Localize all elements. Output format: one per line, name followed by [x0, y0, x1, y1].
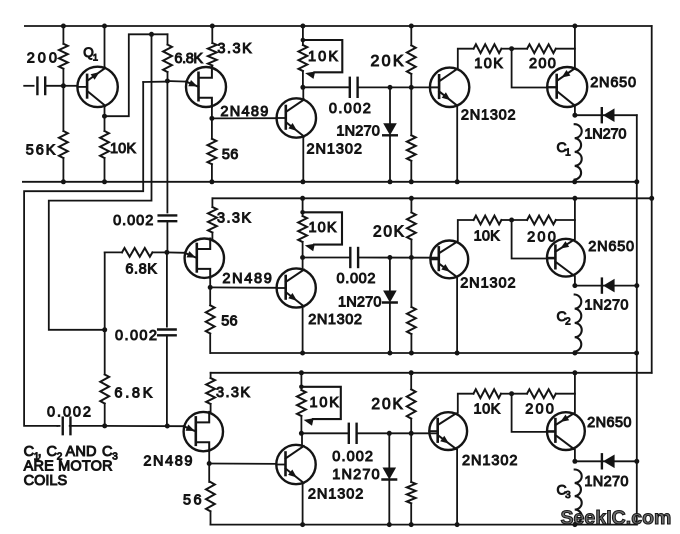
label Q1 [83, 45, 98, 63]
label 200 row3 right [525, 402, 554, 418]
wire right bus (diode/rail bus) [636, 115, 638, 524]
svg-text:2N489: 2N489 [222, 271, 271, 287]
svg-text:2N1302: 2N1302 [460, 276, 515, 292]
svg-text:0.002: 0.002 [115, 328, 157, 344]
node pot top rail1 [300, 24, 305, 29]
wire emitter down row1 first [300, 138, 305, 185]
transistor 2N650 row3 [547, 412, 585, 450]
note motor coils line1 [24, 444, 119, 463]
svg-text:2N1302: 2N1302 [462, 453, 518, 469]
svg-text:20K: 20K [371, 53, 404, 70]
label 10K box row2 [309, 220, 337, 236]
label 6.8K row3 [114, 385, 152, 401]
label 6.8K row2 [125, 261, 157, 277]
resistor 3.3K row1 [208, 26, 217, 67]
transistor Q1 [77, 67, 117, 107]
wire diode row3 right [575, 460, 637, 462]
wire ujt3 b1 down [208, 451, 210, 464]
wire A emitter feed up [105, 34, 168, 116]
svg-text:10K: 10K [474, 56, 503, 72]
resistor 3.3K row2 [208, 198, 217, 238]
svg-text:C: C [24, 444, 34, 460]
node 6.8K row3 bottom [102, 423, 107, 428]
label 10K box row3 [310, 395, 340, 411]
wire emitter down row3 second [456, 450, 458, 525]
wire diode row2 right [575, 285, 637, 287]
wire diode row1 right [575, 114, 637, 116]
svg-text:2N1302: 2N1302 [307, 141, 362, 157]
node C1 bottom rail1 [572, 179, 577, 184]
wire 2N650 emitter down row2 [574, 276, 576, 285]
wire 2N650 emitter down row1 [574, 105, 576, 115]
svg-text:56: 56 [221, 313, 237, 329]
note motor coils line3 [24, 473, 68, 489]
svg-text:1: 1 [565, 148, 571, 159]
wire ujt3 b1 to 2N1302 base [209, 463, 276, 465]
label 56 row3 [183, 493, 202, 509]
label 10K box row1 [308, 49, 338, 65]
svg-text:2N650: 2N650 [588, 239, 634, 255]
node 2N650 emitter row3 [572, 459, 577, 464]
svg-text:2N1302: 2N1302 [461, 107, 516, 123]
node emitter rail3 second [455, 522, 460, 527]
transistor 2N1302 row2 first [277, 268, 316, 307]
wire mid row2 left [303, 257, 350, 259]
resistor 200 row1 right [512, 44, 575, 53]
label 200 row2 right [527, 230, 556, 246]
label 20K row3 [371, 396, 403, 413]
node 2N650 emitter row2 [572, 283, 577, 288]
resistor 56 row3 [206, 464, 215, 525]
label 0.002 row2-b [115, 328, 157, 344]
label C3 [557, 482, 572, 502]
svg-text:SeekIC.com: SeekIC.com [561, 507, 672, 529]
transistor 2N489 row3 (UJT) [184, 412, 223, 451]
capacitor 0.002 row2 mid [350, 248, 358, 267]
svg-text:6.8K: 6.8K [174, 51, 203, 67]
label 56 row2 [221, 313, 237, 329]
diode 1N270 row2 mid [383, 258, 397, 354]
node Q1 emitter [102, 114, 107, 119]
transistor 2N489 row1 (UJT) [186, 67, 226, 107]
label 10K row3 right [474, 402, 501, 418]
svg-text:20K: 20K [371, 396, 403, 413]
wire row2 bottom rail [211, 352, 637, 354]
svg-text:0.002: 0.002 [113, 213, 153, 229]
node diode bottom rail3 [387, 522, 392, 527]
svg-text:C: C [102, 444, 112, 460]
node 2N650 emitter row1 [572, 113, 577, 118]
svg-text:6.8K: 6.8K [114, 385, 152, 401]
node ujt2 emitter [164, 250, 169, 255]
label 2N650 row1 [590, 75, 636, 91]
svg-text:6.8K: 6.8K [125, 261, 157, 277]
label 2N489 row2 [222, 271, 271, 287]
node 56 bottom rail1 [209, 179, 214, 184]
node 20K bottom row1 [409, 85, 414, 90]
svg-text:1N270: 1N270 [338, 295, 382, 311]
svg-text:0.002: 0.002 [47, 404, 91, 420]
label 1N270 row2 right [584, 297, 628, 313]
node 10K-200 junction row1 [509, 46, 514, 51]
node ujt2 b1 [208, 285, 213, 290]
node 3.3K top rail [210, 24, 215, 29]
node 20K top rail3 [409, 370, 414, 375]
node 56K bottom rail1 [61, 179, 66, 184]
label 2N650 row2 [588, 239, 634, 255]
svg-text:200: 200 [529, 56, 556, 72]
node 200 top rail [61, 24, 66, 29]
svg-text:3: 3 [112, 452, 118, 463]
svg-text:10K: 10K [474, 229, 501, 245]
node pot bottom row3 [299, 431, 304, 436]
label 1N270 row3 right [584, 474, 628, 490]
node lower res bottom rail1 [409, 179, 414, 184]
wire Q1 base [63, 85, 77, 87]
label 2N1302 row3 first [308, 486, 363, 502]
node C3 bottom rail3 [572, 522, 577, 527]
capacitor 0.002 row2 coupling-a [159, 81, 177, 252]
node ujt3 b1 [207, 461, 212, 466]
resistor 20K row2 [407, 198, 416, 257]
node lower res bottom rail2 [409, 351, 414, 356]
wire mid row2 right [358, 257, 438, 259]
resistor lower row1 [407, 87, 416, 181]
transistor 2N1302 row3 second [429, 412, 467, 450]
node emitter rail1 second [455, 179, 460, 184]
wire 2N650 collector riser row3 [574, 373, 576, 413]
inductor C2 motor coil [575, 295, 582, 352]
node ujt1 b1 [209, 116, 214, 121]
resistor pot 10K row1 [299, 45, 308, 87]
node lower res bottom rail3 [409, 522, 414, 527]
resistor 10K row3 right [474, 389, 512, 398]
svg-text:0.002: 0.002 [329, 101, 371, 117]
transistor 2N1302 row1 first [277, 98, 316, 137]
label 56 row1 [222, 147, 238, 163]
label 20K row1 [371, 53, 404, 70]
resistor 6.8K row1 [163, 34, 172, 81]
svg-text:0.002: 0.002 [337, 271, 376, 287]
wire 2N650 collector riser row1 [574, 26, 576, 68]
transistor 2N1302 row2 second [430, 241, 468, 279]
label 200 [27, 50, 57, 66]
wire row3 top rail [211, 372, 652, 374]
wire D ujt1 emitter to row3 cap [24, 82, 143, 426]
label 200 row1 right [529, 56, 556, 72]
node 20K top rail1 [409, 24, 414, 29]
label 2N1302 row1 first [307, 141, 362, 157]
capacitor 0.002 row1 [350, 78, 358, 97]
label 20K row2 [373, 224, 405, 241]
potentiometer box 10K row1 [301, 38, 343, 79]
svg-text:,: , [38, 444, 42, 460]
wire ujt2 b1 down [209, 278, 211, 288]
note motor coils line2 [24, 459, 113, 475]
svg-text:1N270: 1N270 [584, 127, 626, 143]
node Q1 base [61, 83, 66, 88]
svg-text:2: 2 [565, 317, 571, 328]
svg-text:AND: AND [66, 444, 97, 460]
node diode row3 bus [634, 459, 639, 464]
node 10K-200 junction row2 [509, 218, 514, 223]
wire collector riser row1 second [458, 49, 474, 69]
svg-text:20K: 20K [373, 224, 405, 241]
label 0.002 row3 left [47, 404, 91, 420]
svg-text:3: 3 [565, 490, 571, 501]
resistor 56 row1 [208, 118, 217, 181]
transistor 2N1302 row1 second [430, 68, 469, 107]
watermark SeekIC.com [561, 507, 672, 529]
svg-text:2N650: 2N650 [590, 75, 636, 91]
wire collector riser row2 second [458, 220, 474, 241]
node 2N650 rail2 [572, 196, 577, 201]
resistor 20K row1 [407, 26, 416, 87]
transistor 2N650 row2 [547, 239, 585, 277]
label 2N1302 row2 second [460, 276, 515, 292]
svg-text:C: C [47, 444, 57, 460]
wire 2N650 collector riser row2 [574, 198, 576, 239]
wire mid row3 left [301, 432, 347, 434]
label 0.002 row1 [329, 101, 371, 117]
node C2 bottom rail2 [572, 351, 577, 356]
wire B feed to rows 2-3 [49, 34, 152, 330]
svg-text:10K: 10K [474, 402, 501, 418]
wire row3 bottom rail [211, 524, 637, 526]
wire mid row3 right [357, 432, 438, 434]
wire ujt1 b1 down [211, 107, 213, 118]
label 0.002 row2 mid [337, 271, 376, 287]
inductor C1 motor coil [575, 124, 582, 179]
svg-text:1N270: 1N270 [584, 474, 628, 490]
label 3.3K row1 [217, 41, 252, 57]
wire emitter down row2 second [456, 278, 458, 353]
inductor C3 motor coil [575, 470, 582, 524]
svg-text:1N270: 1N270 [336, 124, 379, 140]
node 2N650 rail3 [572, 370, 577, 375]
wire ujt3 emitter [105, 425, 184, 427]
label C1 [557, 139, 572, 159]
label 2N1302 row2 first [308, 312, 362, 328]
node rail2 right end [634, 351, 639, 356]
wire ujt2 emitter [167, 251, 184, 253]
label 10K row2 right [474, 229, 501, 245]
node diode bottom rail2 [387, 351, 392, 356]
svg-text:2N1302: 2N1302 [308, 486, 363, 502]
resistor pot 10K row3 [297, 390, 306, 433]
resistor lower row2 [407, 258, 416, 354]
label 0.002 row3 mid [332, 449, 373, 465]
wire mid row1 left [303, 86, 349, 88]
resistor pot 10K row2 [298, 216, 307, 258]
wire emitter down row2 first [300, 307, 305, 355]
svg-text:200: 200 [27, 50, 57, 66]
resistor 200 (input) [59, 26, 68, 86]
capacitor 0.002 row3 mid [349, 424, 357, 443]
wire ujt1 b1 to 2N1302 base [212, 117, 277, 119]
wire row1 bottom rail [23, 181, 637, 183]
resistor 10K row1 right [474, 44, 512, 53]
node pot bottom row2 [300, 255, 305, 260]
wire collector riser row3 [301, 433, 303, 445]
label 2N489 row3 [143, 453, 192, 469]
capacitor input coupling [24, 78, 63, 95]
wire collector riser row2 [302, 258, 304, 269]
wire pot line row3 [300, 373, 302, 390]
svg-text:2N1302: 2N1302 [308, 312, 362, 328]
wire C feed row2 6.8K [104, 252, 106, 329]
wire row2 top rail [212, 197, 651, 199]
wire Q1 collector to rail [104, 26, 106, 68]
svg-text:COILS: COILS [24, 473, 68, 489]
svg-text:2N489: 2N489 [143, 453, 192, 469]
node pot bottom row1 [300, 85, 305, 90]
label 56K [26, 143, 56, 159]
potentiometer box 10K row2 [300, 210, 342, 251]
node 20K bottom row3 [409, 431, 414, 436]
label 1N270 row3 mid [332, 467, 379, 483]
label C2 [557, 308, 572, 328]
resistor 6.8K row3 [100, 330, 109, 426]
resistor 200 row3 right [512, 389, 575, 398]
node diode bottom rail1 [388, 179, 393, 184]
node diode top row1 [388, 85, 393, 90]
diode 1N270 row3 mid [383, 433, 397, 524]
label 2N1302 row3 second [462, 453, 518, 469]
svg-text:3.3K: 3.3K [217, 41, 252, 57]
node pot top rail3 [299, 370, 304, 375]
label 1N270 row2 mid [338, 295, 382, 311]
label 10K row1 right [474, 56, 503, 72]
resistor 6.8K row2 [105, 248, 167, 257]
svg-text:10K: 10K [308, 49, 338, 65]
wire emitter down row1 second [456, 107, 458, 182]
resistor 10K row2 right [474, 216, 512, 225]
svg-text:0.002: 0.002 [332, 449, 373, 465]
svg-text:1N270: 1N270 [584, 297, 628, 313]
svg-text:56: 56 [222, 147, 238, 163]
label 2N1302 row1 second [461, 107, 516, 123]
node 10K-200 junction row3 [509, 391, 514, 396]
node 10K bottom rail1 [102, 179, 107, 184]
wire pot line row2 [302, 198, 304, 216]
node diode top row3 [387, 431, 392, 436]
label 10K Q1 [110, 141, 136, 157]
resistor 10K (Q1 emitter) [100, 116, 109, 182]
svg-text:3.3K: 3.3K [217, 210, 251, 226]
label 1N270 row1 mid [336, 124, 379, 140]
svg-text:56K: 56K [26, 143, 56, 159]
svg-text:10K: 10K [309, 220, 337, 236]
wire collector riser row1 [302, 87, 304, 98]
label 2N489 row1 [220, 104, 268, 120]
node rail1 right end [634, 179, 639, 184]
svg-text:10K: 10K [310, 395, 340, 411]
node 20K top rail2 [409, 196, 414, 201]
svg-text:10K: 10K [110, 141, 136, 157]
wire collector riser row3 second [458, 394, 474, 413]
transistor 2N489 row2 (UJT) [185, 239, 224, 278]
node ujt3 emitter cap junction [165, 424, 170, 429]
node 20K bottom row2 [409, 255, 414, 260]
svg-text:200: 200 [525, 402, 554, 418]
label 0.002 row2-a [113, 213, 153, 229]
resistor lower row3 [407, 433, 416, 524]
svg-text:2N650: 2N650 [587, 415, 631, 431]
svg-text:3.3K: 3.3K [216, 385, 250, 401]
resistor 3.3K row3 [206, 373, 215, 412]
wire Q1 emitter down [104, 106, 106, 116]
wire pot line row1 [302, 26, 304, 45]
diode 1N270 row1 mid [383, 87, 397, 181]
svg-text:1N270: 1N270 [332, 467, 379, 483]
node 6.8K row1 bottom [165, 79, 170, 84]
wire ujt1 emitter [143, 81, 186, 82]
wire ujt2 b1 to 2N1302 base [210, 286, 276, 288]
resistor 56K [59, 86, 68, 182]
transistor 2N1302 row3 first [276, 445, 315, 484]
label 3.3K row2 [217, 210, 251, 226]
node rail2 top right [649, 196, 654, 201]
resistor 56 row2 [206, 287, 215, 353]
wire 2N650 base drop row1 [512, 49, 557, 88]
label 3.3K row3 [216, 385, 250, 401]
wire emitter down row3 first [300, 484, 305, 527]
node diode row2 bus [634, 283, 639, 288]
label 2N650 row3 [587, 415, 631, 431]
svg-text:1: 1 [93, 52, 98, 63]
transistor 2N650 row1 [547, 67, 587, 107]
wire right bus (outer) [651, 26, 653, 373]
label 1N270 row1 right [584, 127, 626, 143]
diode 1N270 row1 right [602, 108, 615, 122]
diode 1N270 row2 right [602, 279, 615, 293]
wire 2N650 base drop row3 [512, 394, 556, 432]
svg-text:200: 200 [527, 230, 556, 246]
wire 2N650 base drop row2 [512, 220, 556, 259]
node feed rows 2-3 split [102, 327, 107, 332]
wire top supply rail [25, 25, 652, 27]
node Q1 collector rail [102, 24, 107, 29]
node emitter rail2 second [455, 351, 460, 356]
node diode top row2 [387, 255, 392, 260]
node pot top rail2 [300, 196, 305, 201]
node feed split [149, 32, 154, 37]
label 6.8K row1 [174, 51, 203, 67]
resistor 200 row2 right [512, 216, 575, 225]
resistor 20K row3 [407, 373, 416, 434]
node 2N650 rail1 [572, 24, 577, 29]
potentiometer box 10K row3 [299, 385, 341, 426]
wire 2N650 emitter down row3 [574, 450, 576, 462]
capacitor 0.002 row3 coupling [57, 418, 104, 435]
capacitor 0.002 row2 coupling-b [158, 252, 176, 426]
diode 1N270 row3 right [602, 454, 615, 468]
wire mid row1 right [358, 86, 439, 88]
